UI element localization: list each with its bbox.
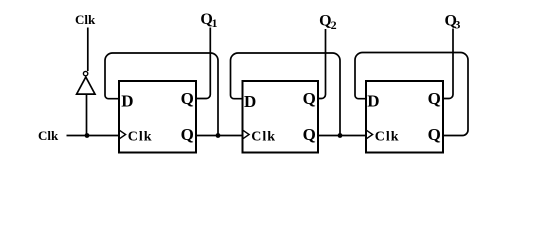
- svg-text:Clk: Clk: [38, 128, 59, 143]
- svg-text:Q: Q: [181, 125, 194, 144]
- svg-text:Q: Q: [303, 89, 316, 108]
- svg-text:D: D: [367, 92, 379, 111]
- wire: triangle to clk line: [86, 94, 88, 135]
- svg-text:Clk: Clk: [375, 129, 400, 144]
- wire: clk label drop: [87, 28, 89, 72]
- svg-text:3: 3: [454, 18, 460, 32]
- wire: Q2 tap to U2 Q: [318, 29, 326, 99]
- node: clk junction: [85, 133, 90, 138]
- wire: U3 feedback arc Qbar to D: [355, 53, 468, 136]
- node: U2 feedback junction: [338, 133, 343, 138]
- wire: U2 Qbar to U3 clock: [318, 135, 366, 137]
- node: U1 feedback junction: [216, 133, 221, 138]
- flip-flop U2 box: [243, 81, 319, 153]
- wire: Q3 tap to U3 Q: [443, 29, 453, 99]
- wire: U1 Qbar to U2 clock: [196, 135, 243, 137]
- wire: Q1 tap to U1 Q: [196, 28, 210, 99]
- svg-text:Clk: Clk: [128, 129, 153, 144]
- U2 clock edge symbol: [243, 130, 249, 138]
- svg-text:D: D: [121, 92, 133, 111]
- svg-text:Clk: Clk: [251, 129, 276, 144]
- flip-flop U3 box: [366, 81, 443, 153]
- svg-text:Q: Q: [303, 125, 316, 144]
- svg-text:D: D: [244, 92, 256, 111]
- svg-text:Q: Q: [181, 89, 194, 108]
- inverter triangle: [77, 77, 95, 94]
- wire: U1 feedback arc Qbar to D: [105, 53, 218, 136]
- flip-flop U1 box: [119, 81, 196, 153]
- wire: Clk input: [67, 135, 120, 137]
- svg-text:Q: Q: [428, 125, 441, 144]
- U1 clock edge symbol: [120, 130, 126, 138]
- svg-text:Q: Q: [428, 89, 441, 108]
- svg-text:Clk: Clk: [75, 12, 96, 27]
- U3 clock edge symbol: [367, 130, 373, 138]
- wire: U2 feedback arc Qbar to D: [231, 53, 341, 136]
- svg-text:2: 2: [331, 18, 337, 32]
- svg-text:1: 1: [212, 16, 218, 30]
- inverter bubble: [83, 71, 87, 75]
